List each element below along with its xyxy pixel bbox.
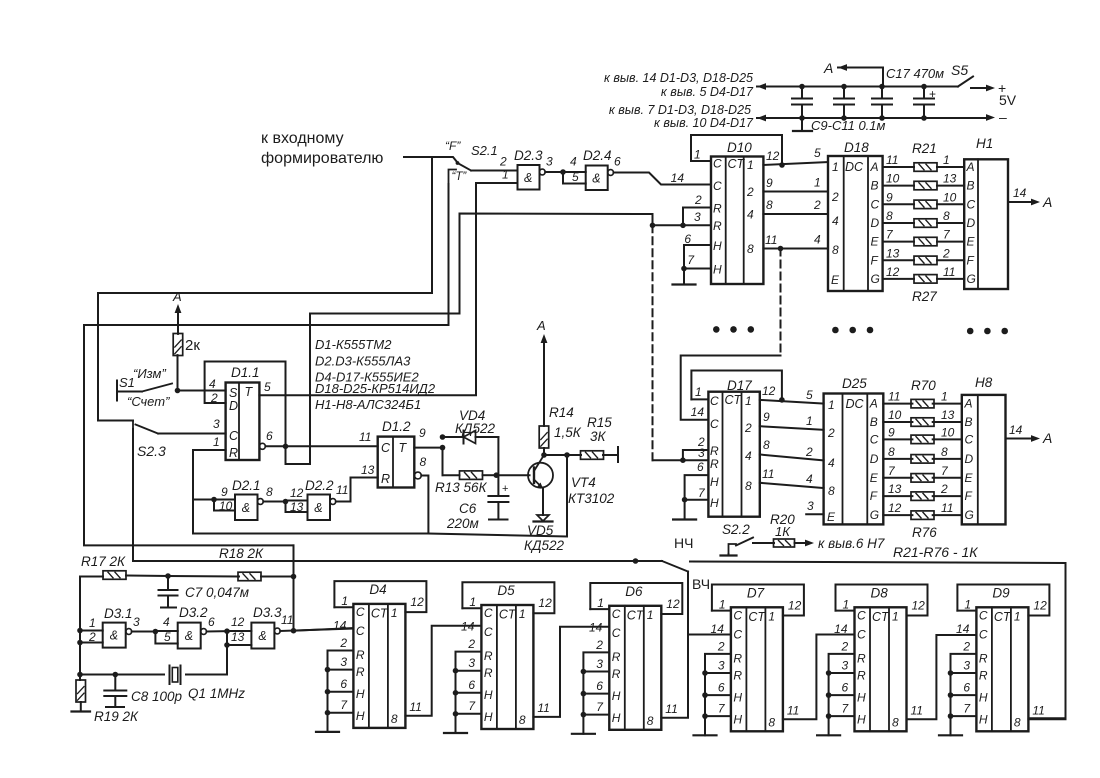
svg-text:8: 8 (1014, 715, 1021, 729)
D3.2 output pin 6 wire (207, 630, 228, 632)
svg-text:4: 4 (570, 155, 577, 169)
svg-text:14: 14 (461, 620, 475, 634)
counter D5 feedback loop (462, 582, 554, 613)
svg-text:Q1 1МHz: Q1 1МHz (188, 686, 245, 701)
svg-text:R17 2К: R17 2К (81, 554, 126, 569)
svg-text:C: C (967, 197, 976, 211)
svg-text:C: C (979, 608, 988, 622)
svg-text:R: R (229, 446, 238, 460)
svg-text:B: B (870, 415, 878, 429)
svg-text:S2.3: S2.3 (137, 443, 166, 459)
node D2.2 input junction (283, 499, 289, 505)
svg-text:G: G (871, 272, 880, 286)
svg-text:C8 100р: C8 100р (131, 689, 183, 704)
svg-text:H: H (857, 690, 866, 704)
svg-text:3: 3 (842, 658, 849, 672)
svg-text:13: 13 (943, 172, 957, 186)
D1.2 pin 9 output wire (414, 447, 442, 449)
svg-text:13: 13 (290, 500, 304, 514)
svg-text:1: 1 (964, 597, 971, 611)
svg-text:2: 2 (841, 639, 849, 653)
svg-text:8: 8 (892, 715, 899, 729)
svg-text:D: D (870, 452, 879, 466)
D5 H pin 6 wire (456, 692, 482, 694)
D10 output 8 wire (763, 213, 828, 215)
wire D1.1 R to D2.1 input (192, 450, 194, 534)
svg-text:3К: 3К (590, 429, 607, 444)
svg-text:4: 4 (828, 456, 835, 470)
counter D6 feedback loop (590, 583, 682, 614)
svg-text:11: 11 (665, 702, 677, 716)
svg-text:Н1: Н1 (976, 136, 993, 151)
svg-text:1: 1 (941, 390, 948, 404)
svg-text:B: B (871, 179, 879, 193)
svg-text:к выв. 7 D1-D3, D18-D25: к выв. 7 D1-D3, D18-D25 (609, 103, 751, 117)
resistor R73 (911, 455, 934, 464)
svg-text:2: 2 (744, 421, 752, 435)
D10 output 11 wire (763, 248, 828, 250)
resistor R21 (914, 163, 937, 172)
svg-text:12: 12 (538, 596, 552, 610)
D10 ground (683, 269, 685, 285)
svg-text:R: R (484, 666, 493, 680)
svg-text:A: A (823, 60, 833, 76)
D2.3 output circle (539, 169, 545, 175)
svg-text:H: H (484, 710, 493, 724)
svg-text:1: 1 (502, 168, 509, 182)
D1.1 pin 5 output wire (259, 394, 476, 396)
svg-text:14: 14 (333, 618, 347, 632)
svg-text:1: 1 (768, 609, 775, 623)
svg-text:D3.2: D3.2 (179, 605, 208, 620)
svg-text:“Изм”: “Изм” (133, 366, 166, 381)
svg-text:9: 9 (221, 485, 228, 499)
svg-text:DC: DC (845, 160, 864, 174)
svg-text:R13 56К: R13 56К (435, 480, 488, 495)
svg-text:5: 5 (264, 380, 271, 394)
D2.2 output circle (330, 499, 336, 505)
svg-text:2: 2 (467, 637, 475, 651)
svg-text:VT4: VT4 (571, 475, 596, 490)
capacitor C10 (x=844) (843, 87, 845, 99)
svg-text:&: & (592, 171, 600, 185)
svg-text:к выв. 14 D1-D3, D18-D25: к выв. 14 D1-D3, D18-D25 (604, 71, 753, 85)
svg-text:к входному: к входному (261, 130, 344, 147)
D7 R pin 2 loop (705, 654, 731, 673)
D10 output 9 wire (763, 191, 828, 193)
svg-text:1: 1 (747, 158, 754, 172)
resistor R20 (774, 539, 795, 547)
svg-text:1: 1 (806, 414, 813, 428)
svg-text:8: 8 (832, 243, 839, 257)
svg-text:&: & (110, 629, 118, 643)
svg-text:C9-C11 0.1м: C9-C11 0.1м (811, 118, 886, 133)
svg-text:D2.3: D2.3 (514, 148, 543, 163)
svg-text:2: 2 (717, 639, 725, 653)
svg-text:8: 8 (745, 479, 752, 493)
svg-text:R: R (857, 651, 866, 665)
D2.2 input loop 12-13 (286, 500, 308, 502)
node rail junction (633, 558, 639, 564)
svg-text:формирователю: формирователю (261, 150, 383, 167)
svg-text:6: 6 (963, 680, 970, 694)
power rail +5V (top) (757, 86, 958, 88)
svg-text:1: 1 (843, 597, 850, 611)
svg-text:9: 9 (419, 426, 426, 440)
svg-text:H: H (612, 711, 621, 725)
D6 pin 1 wire (590, 608, 609, 610)
svg-text:D1.2: D1.2 (382, 419, 411, 434)
svg-text:R: R (713, 202, 722, 216)
svg-text:D2.4: D2.4 (583, 148, 612, 163)
svg-text:&: & (314, 501, 322, 515)
svg-text:Н1-Н8-АЛС324Б1: Н1-Н8-АЛС324Б1 (315, 397, 421, 412)
svg-text:D5: D5 (497, 583, 515, 598)
svg-text:CT: CT (872, 610, 890, 624)
svg-text:R20: R20 (770, 512, 795, 527)
svg-text:R14: R14 (549, 405, 574, 420)
svg-text:9: 9 (766, 176, 773, 190)
svg-text:D3.1: D3.1 (104, 606, 133, 621)
svg-text:“T”: “T” (452, 171, 468, 183)
display H8 body (962, 395, 1006, 525)
svg-text:9: 9 (888, 425, 895, 439)
high speed rail to D9 output (690, 562, 1066, 719)
resistor 2к (177, 355, 179, 390)
svg-text:H: H (733, 690, 742, 704)
svg-text:D2.D3-К555ЛА3: D2.D3-К555ЛА3 (315, 354, 411, 369)
svg-text:13: 13 (231, 630, 245, 644)
svg-text:10: 10 (941, 425, 955, 439)
svg-text:1: 1 (695, 385, 702, 399)
svg-text:R: R (356, 665, 365, 679)
D17 pin 1 wire (691, 398, 708, 400)
capacitor C17 electrolytic (923, 87, 925, 99)
resistor R72 (911, 435, 934, 444)
svg-text:12: 12 (766, 149, 780, 163)
svg-text:3: 3 (807, 499, 814, 513)
svg-text:D18-D25-КР514ИД2: D18-D25-КР514ИД2 (315, 381, 436, 396)
counter D9 body (976, 607, 1028, 731)
svg-text:1: 1 (341, 594, 348, 608)
D1.1 R input pin 1 (193, 450, 226, 532)
svg-text:S2.2: S2.2 (722, 522, 750, 537)
svg-text:+: + (929, 87, 936, 101)
wire Q-bar to D10 R inputs (286, 214, 653, 465)
D7 H pin 7 wire (705, 715, 731, 717)
svg-text:9: 9 (886, 190, 893, 204)
svg-text:CT: CT (728, 157, 746, 171)
svg-text:14: 14 (956, 622, 970, 636)
svg-text:A: A (964, 397, 973, 411)
D5 R pin 2 loop (456, 652, 482, 671)
svg-text:2: 2 (962, 639, 970, 653)
svg-text:CT: CT (725, 393, 743, 407)
svg-text:2: 2 (940, 482, 948, 496)
svg-text:5: 5 (814, 146, 821, 160)
node A arrow (top) (838, 68, 883, 87)
resistor R23 (914, 200, 937, 209)
counter D4 feedback loop (334, 581, 426, 612)
wire R net dashed to D17 (652, 225, 654, 460)
svg-text:D7: D7 (747, 585, 765, 600)
D1.1 pin 6 inverted output (259, 443, 265, 449)
svg-text:E: E (870, 471, 879, 485)
svg-text:C: C (710, 394, 719, 408)
resistor R27 (914, 275, 937, 284)
counter D17 feedback loop (691, 371, 782, 400)
svg-text:C: C (857, 608, 866, 622)
resistor R76 (911, 511, 934, 520)
resistor R24 (914, 219, 937, 228)
D17 output 9 wire (760, 426, 824, 430)
D9 H pin 7 wire (951, 715, 977, 717)
wire T contact to oscillator (84, 184, 449, 577)
svg-text:4: 4 (814, 233, 821, 247)
svg-text:R21-R76 - 1К: R21-R76 - 1К (893, 544, 978, 560)
svg-text:C: C (979, 627, 988, 641)
svg-text:E: E (827, 510, 836, 524)
ellipsis dots row1 (713, 326, 720, 333)
resistor R14 (543, 448, 545, 455)
decoder D25 body (824, 394, 884, 525)
diode VD5 (542, 489, 544, 516)
node oscillator output junction (291, 628, 297, 634)
svg-text:10: 10 (943, 190, 957, 204)
svg-text:R: R (710, 444, 719, 458)
svg-text:14: 14 (1013, 186, 1027, 200)
svg-text:C: C (710, 417, 719, 431)
D9 R pin 2 loop (951, 654, 977, 673)
svg-text:6: 6 (842, 680, 849, 694)
capacitor C6 electrolytic (497, 475, 499, 496)
svg-text:12: 12 (290, 486, 304, 500)
svg-text:C: C (733, 608, 742, 622)
svg-text:12: 12 (1033, 598, 1047, 612)
gate D2.2 (308, 495, 331, 521)
svg-text:A: A (869, 397, 878, 411)
svg-text:CT: CT (748, 610, 766, 624)
D2.1 output circle (258, 499, 264, 505)
D2.4 output circle (608, 170, 614, 176)
svg-text:4: 4 (745, 449, 752, 463)
decoder D18 body (828, 156, 883, 291)
node A arrow (R14) (541, 334, 548, 343)
svg-text:R: R (612, 667, 621, 681)
svg-text:3: 3 (698, 446, 705, 460)
gate D3.3 (251, 623, 274, 649)
svg-text:13: 13 (361, 463, 375, 477)
svg-text:3: 3 (718, 658, 725, 672)
D5 ground (455, 671, 457, 733)
svg-text:5: 5 (164, 630, 171, 644)
svg-text:14: 14 (671, 171, 685, 185)
node A arrow (2к) (177, 313, 179, 334)
svg-text:11: 11 (943, 265, 955, 279)
svg-text:2: 2 (339, 636, 347, 650)
svg-text:11: 11 (941, 501, 953, 515)
D4 H pin 7 wire (328, 712, 354, 714)
svg-text:C: C (713, 179, 722, 193)
svg-text:10: 10 (219, 499, 233, 513)
gate D2.4 (586, 166, 608, 191)
svg-text:11: 11 (911, 703, 923, 717)
svg-text:1: 1 (892, 609, 899, 623)
svg-text:C: C (484, 606, 493, 620)
gate D2.3 (518, 165, 540, 190)
D3.3 output circle (274, 628, 280, 634)
svg-text:R18 2К: R18 2К (219, 546, 264, 561)
svg-text:H: H (979, 690, 988, 704)
svg-text:НЧ: НЧ (674, 535, 693, 551)
svg-text:3: 3 (213, 417, 220, 431)
node oscillator rail right junction (291, 574, 297, 580)
svg-text:220м: 220м (446, 516, 479, 531)
D2.3 input 2 wire (471, 170, 518, 172)
svg-text:4: 4 (747, 208, 754, 222)
gate D3.2 (178, 623, 201, 649)
svg-text:H: H (710, 496, 719, 510)
svg-text:“F”: “F” (445, 139, 461, 153)
D17 output 8 wire (760, 455, 824, 461)
svg-text:H: H (979, 712, 988, 726)
svg-text:C: C (713, 157, 722, 171)
svg-text:14: 14 (834, 622, 848, 636)
wire D9 out to rail (1028, 718, 1065, 720)
svg-text:6: 6 (468, 678, 475, 692)
resistor R70 (911, 399, 934, 408)
C9 lower stub (801, 118, 803, 131)
oscillator feedback rail (80, 576, 103, 578)
svg-text:E: E (871, 235, 880, 249)
D8 R pin 3 wire (829, 672, 855, 674)
ellipsis dots row3 (967, 328, 974, 335)
svg-text:S: S (229, 386, 238, 400)
node D3.3 input junction (224, 628, 230, 634)
cascade wire into D17 C (681, 356, 781, 420)
svg-text:B: B (967, 179, 975, 193)
svg-text:S5: S5 (951, 62, 968, 78)
svg-text:8: 8 (763, 438, 770, 452)
counter D4 body (353, 604, 405, 728)
svg-text:&: & (185, 629, 193, 643)
svg-text:5V: 5V (999, 92, 1017, 108)
svg-text:11: 11 (359, 430, 371, 444)
node R13-C6-base junction (494, 472, 500, 478)
svg-text:6: 6 (684, 232, 691, 246)
svg-text:D3.3: D3.3 (253, 605, 282, 620)
D7 R pin 3 wire (705, 672, 731, 674)
svg-text:D8: D8 (871, 585, 889, 600)
svg-text:11: 11 (409, 700, 421, 714)
diode VD4 (442, 448, 444, 476)
capacitor C11 (x=882) (881, 87, 883, 99)
svg-text:3: 3 (596, 657, 603, 671)
svg-text:8: 8 (420, 455, 427, 469)
svg-text:6: 6 (266, 429, 273, 443)
node Q-bar junction (283, 444, 289, 450)
D17 output 12 wire (760, 400, 824, 404)
svg-text:1,5К: 1,5К (554, 425, 582, 440)
svg-text:+: + (502, 483, 508, 495)
svg-text:11: 11 (787, 703, 799, 717)
svg-text:4: 4 (832, 214, 839, 228)
svg-text:F: F (871, 253, 879, 267)
wire D4 out to D5 C (405, 626, 481, 716)
svg-text:E: E (831, 273, 840, 287)
D2.1 output pin 8 wire (263, 501, 285, 503)
svg-text:DC: DC (846, 397, 865, 411)
flip-flop D1.2 body (378, 437, 415, 488)
D4 H pin 6 wire (328, 691, 354, 693)
D1.1 D input pin 2 loop from Q-bar (205, 362, 286, 447)
counter D7 body (731, 607, 783, 731)
svg-text:2: 2 (499, 155, 507, 169)
svg-text:12: 12 (231, 615, 245, 629)
D4 ground (327, 670, 329, 732)
wire S2.3 to D1.1 C pin 3 (158, 433, 226, 435)
counter D8 feedback loop (836, 585, 928, 616)
counter D8 body (855, 607, 907, 731)
svg-text:2: 2 (805, 445, 813, 459)
svg-text:3: 3 (468, 656, 475, 670)
D5 R pin 3 wire (456, 670, 482, 672)
resistor R75 (911, 492, 934, 501)
svg-text:D: D (229, 399, 238, 413)
svg-text:8: 8 (886, 209, 893, 223)
svg-text:C: C (229, 429, 239, 443)
switch S1 terminal (116, 381, 118, 401)
wire F signal down-left (98, 157, 432, 421)
svg-text:КТ3102: КТ3102 (568, 491, 615, 506)
svg-text:5: 5 (806, 388, 813, 402)
D17 H pin 6 loop (685, 475, 709, 500)
svg-text:3: 3 (694, 210, 701, 224)
D3.2 output circle (201, 629, 207, 635)
svg-text:6: 6 (596, 679, 603, 693)
D6 H pin 6 wire (583, 693, 609, 695)
wire oscillator output to D4 (294, 628, 354, 631)
svg-text:10: 10 (886, 172, 900, 186)
D17 R pin 2 loop (683, 450, 709, 460)
svg-text:R19 2К: R19 2К (94, 709, 139, 724)
svg-text:1: 1 (832, 160, 839, 174)
resistor R13 (460, 471, 483, 480)
D5 pin 1 wire (462, 607, 481, 609)
svg-text:1: 1 (89, 616, 96, 630)
resistor R15 (581, 451, 604, 460)
wire ВЧ vertical (687, 572, 689, 635)
svg-text:2: 2 (595, 638, 603, 652)
svg-text:8: 8 (391, 712, 398, 726)
svg-text:14: 14 (1009, 423, 1023, 437)
svg-text:D1-К555ТМ2: D1-К555ТМ2 (315, 337, 392, 352)
svg-text:2: 2 (827, 426, 835, 440)
capacitor C9 (x=802) (801, 87, 803, 99)
D8 pin 1 wire (836, 610, 855, 612)
wire from input text (404, 156, 432, 158)
svg-text:12: 12 (888, 501, 902, 515)
svg-text:1: 1 (519, 607, 526, 621)
svg-text:F: F (965, 489, 973, 503)
gate D3.1 (103, 623, 126, 648)
svg-text:C: C (871, 197, 880, 211)
H8 output pin 14 arrow to A (1006, 438, 1033, 440)
svg-text:4: 4 (163, 615, 170, 629)
D2.2 output pin 11 wire to D1.2 R (336, 478, 378, 502)
svg-text:12: 12 (912, 598, 926, 612)
svg-text:G: G (870, 508, 879, 522)
